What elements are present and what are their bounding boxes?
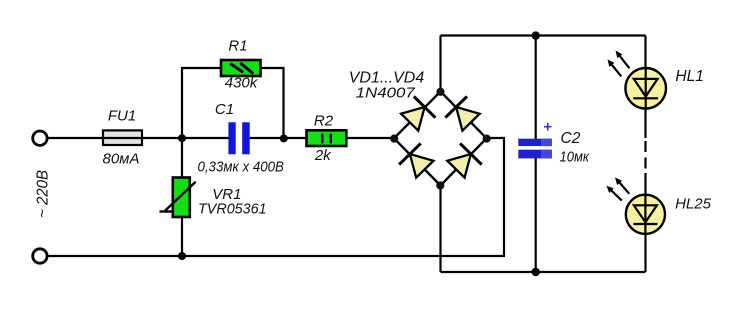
junction node VR1 bottom xyxy=(178,252,186,260)
wire bridge bottom node drop xyxy=(439,186,441,273)
wire bottom AC rail xyxy=(47,138,504,256)
wire bridge top node to DC+ rail xyxy=(439,36,441,92)
svg-text:R1: R1 xyxy=(228,38,247,55)
wire top rail to HL1 xyxy=(644,36,646,70)
wire C2 bottom drop xyxy=(535,157,537,272)
varistor VR1 xyxy=(160,178,196,218)
wire DC+ top rail xyxy=(441,34,646,36)
capacitor C1 xyxy=(228,122,249,154)
wire C1 right plate to R2 xyxy=(250,137,307,139)
wire R2 to bridge left node xyxy=(346,137,394,139)
bridge diamond wire top-right xyxy=(441,92,487,139)
terminal X1 top xyxy=(33,131,47,145)
diode VD1 (left-top arm) xyxy=(399,96,435,132)
wire R1 bypass left branch xyxy=(182,68,222,138)
svg-text:2k: 2k xyxy=(314,147,332,164)
LED HL25 xyxy=(607,178,666,234)
junction node bridge bottom xyxy=(436,181,444,189)
LED HL1 xyxy=(608,51,667,109)
svg-text:0,33мк x 400В: 0,33мк x 400В xyxy=(197,159,284,176)
diode VD2 (top-right arm) xyxy=(445,96,481,132)
wire VR1 bottom to bottom AC rail xyxy=(181,217,183,256)
svg-text:1N4007: 1N4007 xyxy=(356,85,416,102)
wire R1 bypass right branch xyxy=(260,68,284,138)
junction node C2 top rail xyxy=(532,31,540,39)
svg-text:HL25: HL25 xyxy=(675,195,712,212)
bridge diamond wire left-bottom xyxy=(394,138,441,185)
fuse FU1 xyxy=(103,130,142,145)
svg-text:C1: C1 xyxy=(215,101,234,118)
svg-text:FU1: FU1 xyxy=(108,108,136,125)
junction node bridge right xyxy=(483,135,491,143)
junction node after fuse xyxy=(178,134,186,142)
svg-text:R2: R2 xyxy=(314,113,334,130)
wire HL1 to HL25 with dashed middle xyxy=(644,108,646,138)
junction node bridge top xyxy=(436,88,444,96)
svg-text:10мк: 10мк xyxy=(560,148,590,165)
junction node C2 bottom rail xyxy=(532,268,540,276)
wire junction to VR1 top xyxy=(181,138,183,178)
diode VD4 (bottom-right arm) xyxy=(445,143,481,179)
wire C2 top drop xyxy=(535,36,537,141)
svg-text:C2: C2 xyxy=(561,130,581,147)
bridge diamond wire bottom-right xyxy=(441,138,487,185)
svg-text:~ 220В: ~ 220В xyxy=(34,170,51,218)
bridge diamond wire left-top xyxy=(394,92,441,139)
wire top AC rail from terminal to C1 xyxy=(47,137,229,139)
terminal X2 bottom xyxy=(33,249,47,263)
svg-text:430k: 430k xyxy=(225,75,259,92)
resistor R1 xyxy=(221,60,261,76)
svg-text:HL1: HL1 xyxy=(675,68,703,85)
capacitor C2 electrolytic xyxy=(518,139,552,159)
svg-text:+: + xyxy=(543,119,552,136)
diode VD3 (bottom-left arm) xyxy=(399,143,435,179)
svg-text:80мА: 80мА xyxy=(103,151,140,168)
resistor R2 xyxy=(307,130,347,146)
svg-text:TVR05361: TVR05361 xyxy=(198,200,267,217)
junction node bridge left xyxy=(390,135,398,143)
wire HL25 to bottom rail xyxy=(644,234,646,273)
wire DC- bottom rail xyxy=(441,271,646,273)
junction node after C1 xyxy=(280,134,288,142)
